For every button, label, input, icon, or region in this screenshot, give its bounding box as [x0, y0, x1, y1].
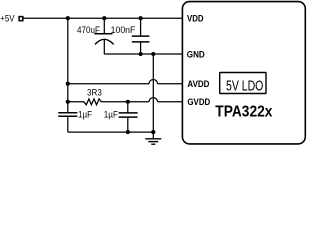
junction dot GVDD at left rail — [66, 100, 70, 104]
svg-text:AVDD: AVDD — [187, 79, 209, 90]
wire hop GVDD over ground line — [149, 98, 157, 102]
IC U1 TPA322x outline — [182, 2, 305, 144]
capacitor C1 470uF polarized — [94, 18, 113, 54]
terminal J1 +5V input — [19, 17, 23, 21]
wire GVDD right segment — [158, 101, 183, 103]
wire +5V top rail — [23, 17, 183, 19]
svg-text:GVDD: GVDD — [187, 97, 210, 108]
junction dot bottom rail at ground line — [151, 130, 155, 134]
junction dot GND rail at ground line — [151, 52, 155, 56]
svg-text:3R3: 3R3 — [87, 87, 102, 98]
resistor R1 3R3 zigzag — [84, 99, 101, 105]
junction dot bottom rail at C4 stem — [126, 130, 130, 134]
svg-text:VDD: VDD — [187, 13, 204, 24]
wire AVDD left segment — [68, 83, 149, 85]
wire AVDD right segment — [158, 83, 183, 85]
wire GVDD middle segment — [101, 101, 150, 103]
svg-text:+5V: +5V — [0, 13, 14, 24]
junction dot GND rail at C2 stem — [139, 52, 143, 56]
ground symbol — [145, 139, 161, 144]
svg-text:1µF: 1µF — [78, 109, 92, 120]
capacitor C3 1uF left — [58, 113, 77, 132]
svg-text:GND: GND — [187, 49, 205, 60]
block 5V LDO box — [220, 73, 266, 94]
junction dot GVDD at C4 stem — [126, 100, 130, 104]
capacitor C2 100nF — [132, 18, 150, 54]
wire left vertical rail — [67, 18, 69, 113]
capacitor C4 1uF right — [119, 102, 138, 132]
wire ground vertical line — [152, 54, 154, 139]
junction dot top rail at C1 stem — [102, 16, 106, 20]
wire hop AVDD over ground line — [149, 80, 157, 84]
svg-text:TPA322x: TPA322x — [215, 104, 272, 121]
wire GVDD left lead — [68, 101, 84, 103]
svg-text:1µF: 1µF — [104, 109, 118, 120]
junction dot AVDD at left rail — [66, 82, 70, 86]
svg-text:5V LDO: 5V LDO — [226, 76, 263, 93]
wire bottom rail — [68, 131, 154, 133]
junction dot top rail at C2 stem — [139, 16, 143, 20]
junction dot top rail at left vertical rail — [66, 16, 70, 20]
svg-text:100nF: 100nF — [111, 25, 136, 35]
wire GND rail — [104, 53, 183, 55]
